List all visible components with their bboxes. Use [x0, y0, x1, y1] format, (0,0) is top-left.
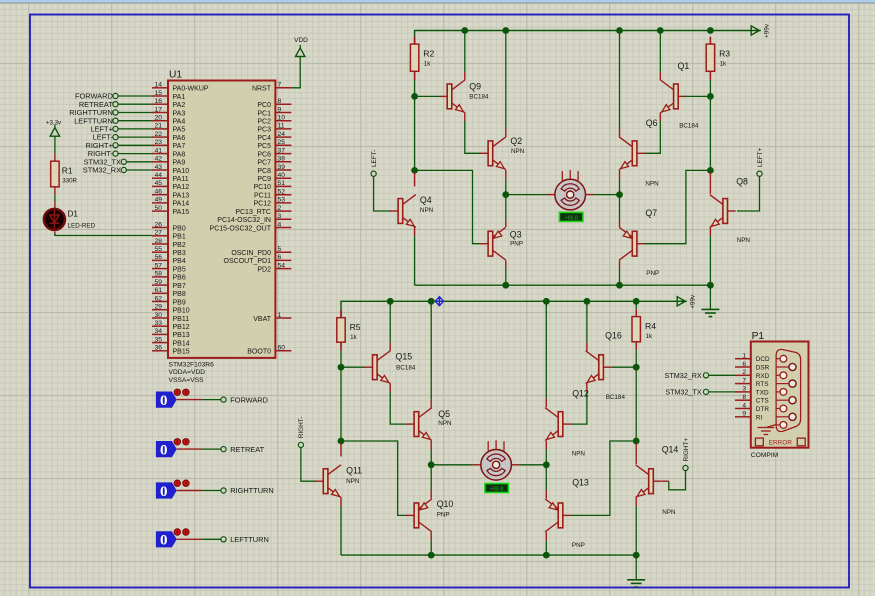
wire motor2-left node to motor M2: [431, 464, 472, 466]
svg-text:NPN: NPN: [438, 420, 452, 427]
svg-text:NPN: NPN: [572, 450, 586, 457]
transistor Q2 NPN: [480, 136, 525, 170]
U1 pin 53 PC12: [253, 197, 291, 208]
svg-text:Q16: Q16: [605, 331, 622, 341]
U1 pin 34 PB13: [152, 328, 190, 339]
svg-text:PB1: PB1: [173, 234, 186, 241]
svg-text:1k: 1k: [720, 61, 727, 68]
svg-text:PA8: PA8: [173, 151, 186, 158]
wire Q10 collector to bottom rail 2: [430, 532, 432, 541]
U1 pin 26 PB0: [152, 221, 186, 232]
svg-text:Q2: Q2: [510, 136, 522, 146]
svg-text:PC11: PC11: [254, 193, 271, 200]
svg-text:PB10: PB10: [173, 308, 190, 315]
resistor R4 1k: [632, 309, 656, 349]
svg-text:Q11: Q11: [346, 466, 362, 476]
svg-text:50: 50: [154, 205, 162, 212]
svg-text:PA3: PA3: [173, 110, 186, 117]
svg-text:35: 35: [154, 336, 162, 343]
junction node L1: [411, 167, 418, 174]
U1 pin 33 PB12: [152, 320, 190, 331]
svg-text:PB13: PB13: [173, 332, 190, 339]
power terminal +99v (rail 1): [751, 23, 770, 38]
svg-text:LED-RED: LED-RED: [68, 222, 96, 229]
wire Q3 collector to bottom rail: [505, 260, 507, 269]
terminal RETREAT to U1 PA2: [79, 100, 152, 109]
svg-text:R2: R2: [423, 48, 434, 58]
wire node A1 to Q9 base: [415, 95, 441, 97]
junction node J4: [633, 438, 640, 445]
svg-text:1k: 1k: [424, 61, 431, 68]
wire Q14 base to RIGHT+: [662, 480, 669, 482]
wire node J4 to Q14 collector: [635, 443, 637, 464]
terminal LEFT+ to U1 PA5: [90, 125, 152, 134]
svg-text:NPN: NPN: [645, 180, 659, 187]
svg-text:28: 28: [154, 238, 162, 245]
P1 pin 4 DTR: [735, 402, 769, 413]
U1 pin 62 PB9: [152, 295, 186, 306]
junction bottom-rail2/Q10: [428, 552, 435, 559]
transistor Q6 NPN: [619, 118, 659, 187]
svg-text:1: 1: [278, 312, 282, 319]
P1 pin 9 RI: [735, 411, 762, 422]
svg-text:60: 60: [278, 345, 286, 352]
U1 pin 44 PA11: [152, 172, 189, 183]
junction node A2: [707, 93, 714, 100]
svg-text:39: 39: [278, 164, 286, 171]
U1 pin 29 PB10: [152, 304, 190, 315]
resistor R5 1k: [337, 310, 361, 350]
svg-text:53: 53: [278, 197, 286, 204]
wire Q3 emitter to motor-left node: [505, 219, 507, 227]
P1 pin 6 DSR: [735, 361, 770, 372]
svg-text:54: 54: [278, 262, 286, 269]
U1 pin 35 PB14: [152, 336, 190, 347]
svg-text:PC10: PC10: [253, 184, 271, 191]
svg-text:PA1: PA1: [173, 94, 186, 101]
svg-text:PB6: PB6: [173, 275, 186, 282]
svg-text:STM32_RX: STM32_RX: [83, 166, 121, 175]
transistor Q8 NPN: [710, 177, 751, 245]
U1 pin 56 PB4: [152, 254, 186, 265]
svg-text:LEFTTURN: LEFTTURN: [230, 535, 269, 544]
U1 pin 52 PC11: [254, 189, 291, 200]
transistor Q16 BC184: [586, 331, 626, 401]
wire node L1 to Q3 base: [415, 170, 482, 243]
wire Q16 emitter to Q12 base: [586, 383, 588, 391]
svg-text:Q13: Q13: [572, 478, 589, 488]
U1 pin 2 PC13_RTC: [235, 205, 291, 216]
svg-text:PA4: PA4: [173, 119, 186, 126]
wire U1 NRST to VDD: [291, 57, 300, 88]
svg-text:330R: 330R: [62, 178, 77, 185]
svg-text:COMPIM: COMPIM: [751, 452, 779, 459]
svg-text:4: 4: [742, 402, 746, 409]
U1 pin 39 PC8: [257, 164, 291, 175]
wire bottom rail 2 to ground: [635, 555, 637, 580]
svg-text:PB11: PB11: [173, 316, 190, 323]
wire rail2 to Q16 collector: [586, 301, 588, 343]
wire LEFT- to Q4 base: [374, 176, 392, 211]
transistor Q13 PNP: [545, 478, 589, 550]
U1 pin 41 PA8: [152, 147, 185, 158]
svg-text:PB8: PB8: [173, 291, 186, 298]
wire Q11 emitter to bottom rail 2: [340, 497, 342, 506]
svg-text:5: 5: [278, 246, 282, 253]
wire Q14 emitter to bottom rail 2: [635, 497, 637, 506]
svg-text:Q15: Q15: [396, 352, 413, 362]
wire Q15 emitter to Q5 base: [389, 383, 391, 391]
wire D1 cathode to U1 PB1: [55, 234, 152, 236]
svg-text:PA13: PA13: [173, 193, 190, 200]
wire rail to Q15 collector: [389, 301, 391, 343]
P1 ERROR indicator: [755, 438, 805, 446]
svg-text:PC0: PC0: [257, 102, 271, 109]
svg-text:PC2: PC2: [257, 119, 271, 126]
svg-text:BC184: BC184: [469, 94, 489, 101]
power +3.3v: [46, 119, 62, 136]
svg-text:PB12: PB12: [173, 324, 190, 331]
svg-text:PB14: PB14: [173, 340, 190, 347]
wire node L2 to Q11 collector: [340, 443, 342, 456]
wire Q7 emitter to motor-right node: [619, 219, 621, 227]
motor M2 (right motor): [481, 440, 512, 480]
U1 pin 23 PA7: [152, 139, 185, 150]
svg-text:PA2: PA2: [173, 102, 186, 109]
U1 pin 51 PC10: [253, 180, 291, 191]
svg-text:P1: P1: [752, 331, 765, 342]
svg-text:PA10: PA10: [173, 168, 190, 175]
junction motor2-left node: [428, 461, 435, 468]
U1 pin 10 PC2: [257, 115, 291, 126]
svg-text:+88.8: +88.8: [565, 216, 578, 222]
svg-text:STM32_TX: STM32_TX: [665, 388, 702, 397]
svg-text:Q3: Q3: [510, 230, 522, 240]
svg-text:PA0-WKUP: PA0-WKUP: [173, 86, 209, 93]
svg-text:42: 42: [154, 156, 162, 163]
junction motor2-right node: [543, 461, 550, 468]
svg-text:DSR: DSR: [756, 365, 770, 372]
svg-text:PNP: PNP: [510, 240, 523, 247]
wire R3 to node A2: [709, 37, 711, 44]
svg-text:CTS: CTS: [756, 398, 769, 405]
U1 pin 28 PB2: [152, 238, 186, 249]
transistor Q11 NPN: [315, 465, 362, 498]
svg-text:3: 3: [742, 386, 746, 393]
wire +V supply rail (bridge 1): [415, 31, 752, 45]
svg-text:LEFT+: LEFT+: [757, 147, 764, 167]
wire +V supply rail (bridge 2): [341, 301, 677, 317]
svg-text:PNP: PNP: [437, 511, 450, 518]
transistor Q9 BC184: [439, 80, 489, 113]
U1 pin 36 PB15: [152, 345, 190, 356]
U1 pin 46 PA13: [152, 189, 189, 200]
svg-text:NPN: NPN: [511, 148, 525, 155]
svg-text:44: 44: [154, 172, 162, 179]
U1 pin 8 PC0: [257, 98, 291, 109]
junction motor-right node: [616, 191, 623, 198]
svg-text:R4: R4: [645, 321, 656, 331]
junction bottom-rail/Q8: [707, 282, 714, 289]
junction rail2/Q12: [543, 298, 550, 305]
svg-text:TXD: TXD: [756, 389, 769, 396]
wire RIGHT- to Q11 base: [301, 448, 317, 482]
svg-text:30: 30: [154, 312, 162, 319]
P1 shell ground: [758, 425, 777, 435]
svg-text:NPN: NPN: [346, 478, 360, 485]
U1 pin 54 PD2: [257, 262, 291, 273]
U1 pin 57 PB5: [152, 262, 186, 273]
logic state input LEFTTURN: [156, 529, 269, 549]
svg-text:NRST: NRST: [252, 86, 272, 93]
svg-text:22: 22: [154, 131, 162, 138]
svg-text:3: 3: [278, 213, 282, 220]
terminal RIGHT-: [298, 417, 305, 448]
U1 pin 16 PA2: [152, 98, 185, 109]
terminal FORWARD to U1 PA1: [75, 92, 152, 101]
P1 pin 2 RXD: [735, 369, 770, 380]
terminal LEFT-: [371, 150, 378, 177]
svg-text:PA11: PA11: [173, 176, 189, 183]
svg-text:Q5: Q5: [438, 409, 450, 419]
transistor Q12 NPN: [545, 389, 589, 458]
terminal RIGHT+ to U1 PA7: [85, 141, 152, 150]
U1 pin 49 PA14: [152, 197, 189, 208]
U1 pin 24 PC4: [257, 131, 291, 142]
U1 pin 59 PB7: [152, 279, 186, 290]
wire Q8 emitter to bottom rail: [709, 227, 711, 236]
svg-text:PNP: PNP: [572, 542, 585, 549]
junction rail/Q9: [461, 27, 468, 34]
svg-text:VSSA=VSS: VSSA=VSS: [169, 377, 205, 384]
svg-text:27: 27: [154, 230, 162, 237]
resistor R2 1k: [410, 37, 434, 79]
U1 pin 14 PA0-WKUP: [152, 82, 209, 93]
svg-text:Q10: Q10: [437, 499, 454, 509]
svg-text:+88.8: +88.8: [490, 487, 503, 493]
svg-text:21: 21: [154, 123, 162, 130]
wire R4 to node A4 / down to node J4: [635, 342, 637, 350]
svg-text:51: 51: [278, 180, 286, 187]
wire motor M2 to motor2-right node: [511, 464, 519, 466]
svg-text:+99v: +99v: [690, 294, 697, 309]
wire motor M1 to motor-right node: [586, 194, 595, 196]
junction bottom-rail2/Q14: [633, 552, 640, 559]
svg-text:1k: 1k: [350, 334, 357, 341]
svg-text:8: 8: [742, 394, 746, 401]
resistor R3 1k: [706, 37, 730, 79]
wire Q6 emitter to motor-right node: [619, 170, 621, 179]
svg-text:23: 23: [154, 139, 162, 146]
svg-text:57: 57: [154, 262, 162, 269]
svg-text:NPN: NPN: [737, 237, 751, 244]
wire bottom rail (bridge 2): [341, 554, 636, 556]
U1 pin 58 PB6: [152, 271, 186, 282]
svg-text:0: 0: [160, 442, 168, 458]
svg-text:VDDA=VDD: VDDA=VDD: [169, 369, 206, 376]
svg-text:PD2: PD2: [257, 266, 271, 273]
U1 pin 45 PA12: [152, 180, 189, 191]
ground (bridge 2): [627, 580, 645, 587]
svg-text:7: 7: [742, 377, 746, 384]
svg-text:PC12: PC12: [253, 201, 271, 208]
transistor Q4 NPN: [390, 195, 434, 228]
svg-text:45: 45: [154, 180, 162, 187]
svg-text:43: 43: [154, 164, 162, 171]
svg-text:20: 20: [154, 115, 162, 122]
svg-text:Q1: Q1: [678, 61, 690, 71]
wire Q13 emitter to motor2-right node: [545, 490, 547, 499]
motor M1 rpm display: [559, 212, 583, 221]
svg-text:9: 9: [742, 411, 746, 418]
wire bottom rail (bridge 1): [415, 284, 711, 286]
svg-text:PC7: PC7: [257, 160, 271, 167]
wire node J2 to Q8 collector: [709, 173, 711, 194]
svg-text:OSCOUT_PD1: OSCOUT_PD1: [224, 258, 272, 265]
junction bottom-rail/Q3: [502, 282, 509, 289]
svg-text:R5: R5: [350, 322, 361, 332]
svg-text:+3.3v: +3.3v: [46, 119, 62, 126]
svg-text:U1: U1: [169, 70, 182, 81]
wire Q2 emitter to motor-left node: [505, 170, 507, 179]
U1 pin 27 PB1: [152, 230, 186, 241]
svg-text:52: 52: [278, 189, 286, 196]
svg-text:PC1: PC1: [257, 110, 271, 117]
svg-text:11: 11: [278, 123, 285, 130]
terminal STM32_TX to U1 PA9: [84, 157, 152, 166]
wire R2 to node A1 / down to node L1: [414, 79, 416, 171]
junction motor-left node: [502, 191, 509, 198]
U1 pin 11 PC3: [257, 123, 291, 134]
svg-text:DCD: DCD: [756, 356, 770, 363]
wire Q13 collector to bottom rail 2: [545, 532, 547, 541]
svg-text:PB4: PB4: [173, 258, 186, 265]
wire bottom rail to ground: [709, 285, 711, 309]
wire Q9 emitter to Q2 base: [464, 113, 466, 121]
junction node J2: [707, 167, 714, 174]
terminal LEFTTURN to U1 PA4: [74, 116, 152, 125]
wire rail2 to Q12 collector: [545, 301, 547, 398]
svg-text:6: 6: [278, 254, 282, 261]
junction rail/Q2: [502, 27, 509, 34]
U1 pin 42 PA9: [152, 156, 185, 167]
U1 pin 43 PA10: [152, 164, 189, 175]
svg-text:26: 26: [154, 221, 162, 228]
U1 pin 9 PC1: [257, 106, 291, 117]
svg-text:36: 36: [154, 345, 162, 352]
svg-text:PA12: PA12: [173, 184, 190, 191]
svg-text:RIGHT-: RIGHT-: [298, 417, 305, 439]
svg-text:41: 41: [154, 147, 162, 154]
svg-text:15: 15: [154, 90, 162, 97]
svg-text:0: 0: [160, 533, 168, 549]
svg-text:LEFT-: LEFT-: [371, 150, 378, 167]
P1 pin 7 RTS: [735, 377, 768, 388]
svg-text:2: 2: [278, 205, 282, 212]
wire node A2 to Q1 base: [685, 95, 711, 97]
wire Q13 base to node J4: [571, 441, 637, 515]
wire Q12 emitter to motor2-right node: [545, 441, 547, 450]
svg-text:BC184: BC184: [606, 394, 626, 401]
svg-text:PC3: PC3: [257, 127, 271, 134]
junction rail/Q6: [616, 27, 623, 34]
wire node L2 to Q10 base: [341, 441, 408, 515]
terminal STM32_TX to P1 TXD: [665, 388, 735, 397]
svg-text:STM32F103R6: STM32F103R6: [169, 362, 215, 369]
power VDD: [294, 37, 308, 57]
svg-text:RIGHT+: RIGHT+: [683, 438, 690, 462]
svg-text:8: 8: [278, 98, 282, 105]
svg-text:PNP: PNP: [646, 270, 659, 277]
svg-text:RTS: RTS: [756, 381, 769, 388]
svg-text:VDD: VDD: [294, 37, 308, 44]
terminal STM32_RX to U1 PA10: [83, 166, 152, 175]
resistor R1 330R: [51, 154, 78, 195]
svg-text:RIGHTTURN: RIGHTTURN: [230, 486, 274, 495]
terminal STM32_RX to P1 RXD: [665, 371, 735, 380]
power terminal +99v (rail 2): [677, 294, 696, 309]
svg-text:PC4: PC4: [257, 135, 271, 142]
LED D1 LED-RED: [44, 202, 96, 236]
wire rail to Q5 collector: [430, 301, 432, 399]
U1 pin 6 OSCOUT_PD1: [224, 254, 292, 265]
svg-text:Q8: Q8: [736, 177, 748, 187]
svg-text:37: 37: [278, 147, 286, 154]
svg-text:16: 16: [154, 98, 162, 105]
P1 pin 8 CTS: [735, 394, 769, 405]
svg-text:38: 38: [278, 156, 286, 163]
svg-text:D1: D1: [68, 210, 79, 219]
svg-text:Q9: Q9: [469, 82, 481, 92]
svg-text:RETREAT: RETREAT: [230, 445, 264, 454]
wire rail to Q6 collector: [619, 31, 621, 129]
junction rail2/Q16: [584, 298, 591, 305]
svg-text:7: 7: [278, 82, 282, 89]
U1 pin 22 PA6: [152, 131, 185, 142]
P1 DB9 pin circles: [776, 355, 796, 428]
P1 pin 3 TXD: [735, 386, 769, 397]
U1 pin 7 NRST: [252, 82, 291, 93]
svg-text:OSCIN_PD0: OSCIN_PD0: [231, 250, 271, 257]
connector P1 COMPIM body: [751, 331, 809, 459]
ground (bridge 1): [701, 309, 719, 316]
svg-text:10: 10: [278, 115, 286, 122]
svg-text:PC9: PC9: [257, 176, 271, 183]
logic state input RIGHTTURN: [156, 480, 274, 500]
wire rail to Q1 collector: [659, 31, 661, 73]
svg-text:34: 34: [154, 328, 162, 335]
junction node A4: [633, 364, 640, 371]
svg-text:R3: R3: [719, 48, 730, 58]
svg-text:59: 59: [154, 279, 162, 286]
U1 pin 55 PB3: [152, 246, 186, 257]
U1 pin 25 PC5: [257, 139, 291, 150]
transistor Q1 BC184: [661, 61, 699, 129]
svg-text:STM32_RX: STM32_RX: [665, 371, 702, 380]
svg-text:PA9: PA9: [173, 160, 186, 167]
junction rail2/Q15: [387, 298, 394, 305]
svg-text:24: 24: [278, 131, 286, 138]
svg-text:Q6: Q6: [646, 118, 658, 128]
svg-text:56: 56: [154, 254, 162, 261]
terminal RIGHT- to U1 PA8: [88, 149, 152, 158]
U1 pin 20 PA4: [152, 115, 185, 126]
svg-text:1: 1: [742, 353, 746, 360]
junction bottom-rail2/Q13: [543, 552, 550, 559]
U1 pin 60 BOOT0: [247, 345, 291, 356]
wire Q4 emitter to bottom rail: [414, 227, 416, 236]
svg-text:6: 6: [742, 361, 746, 368]
